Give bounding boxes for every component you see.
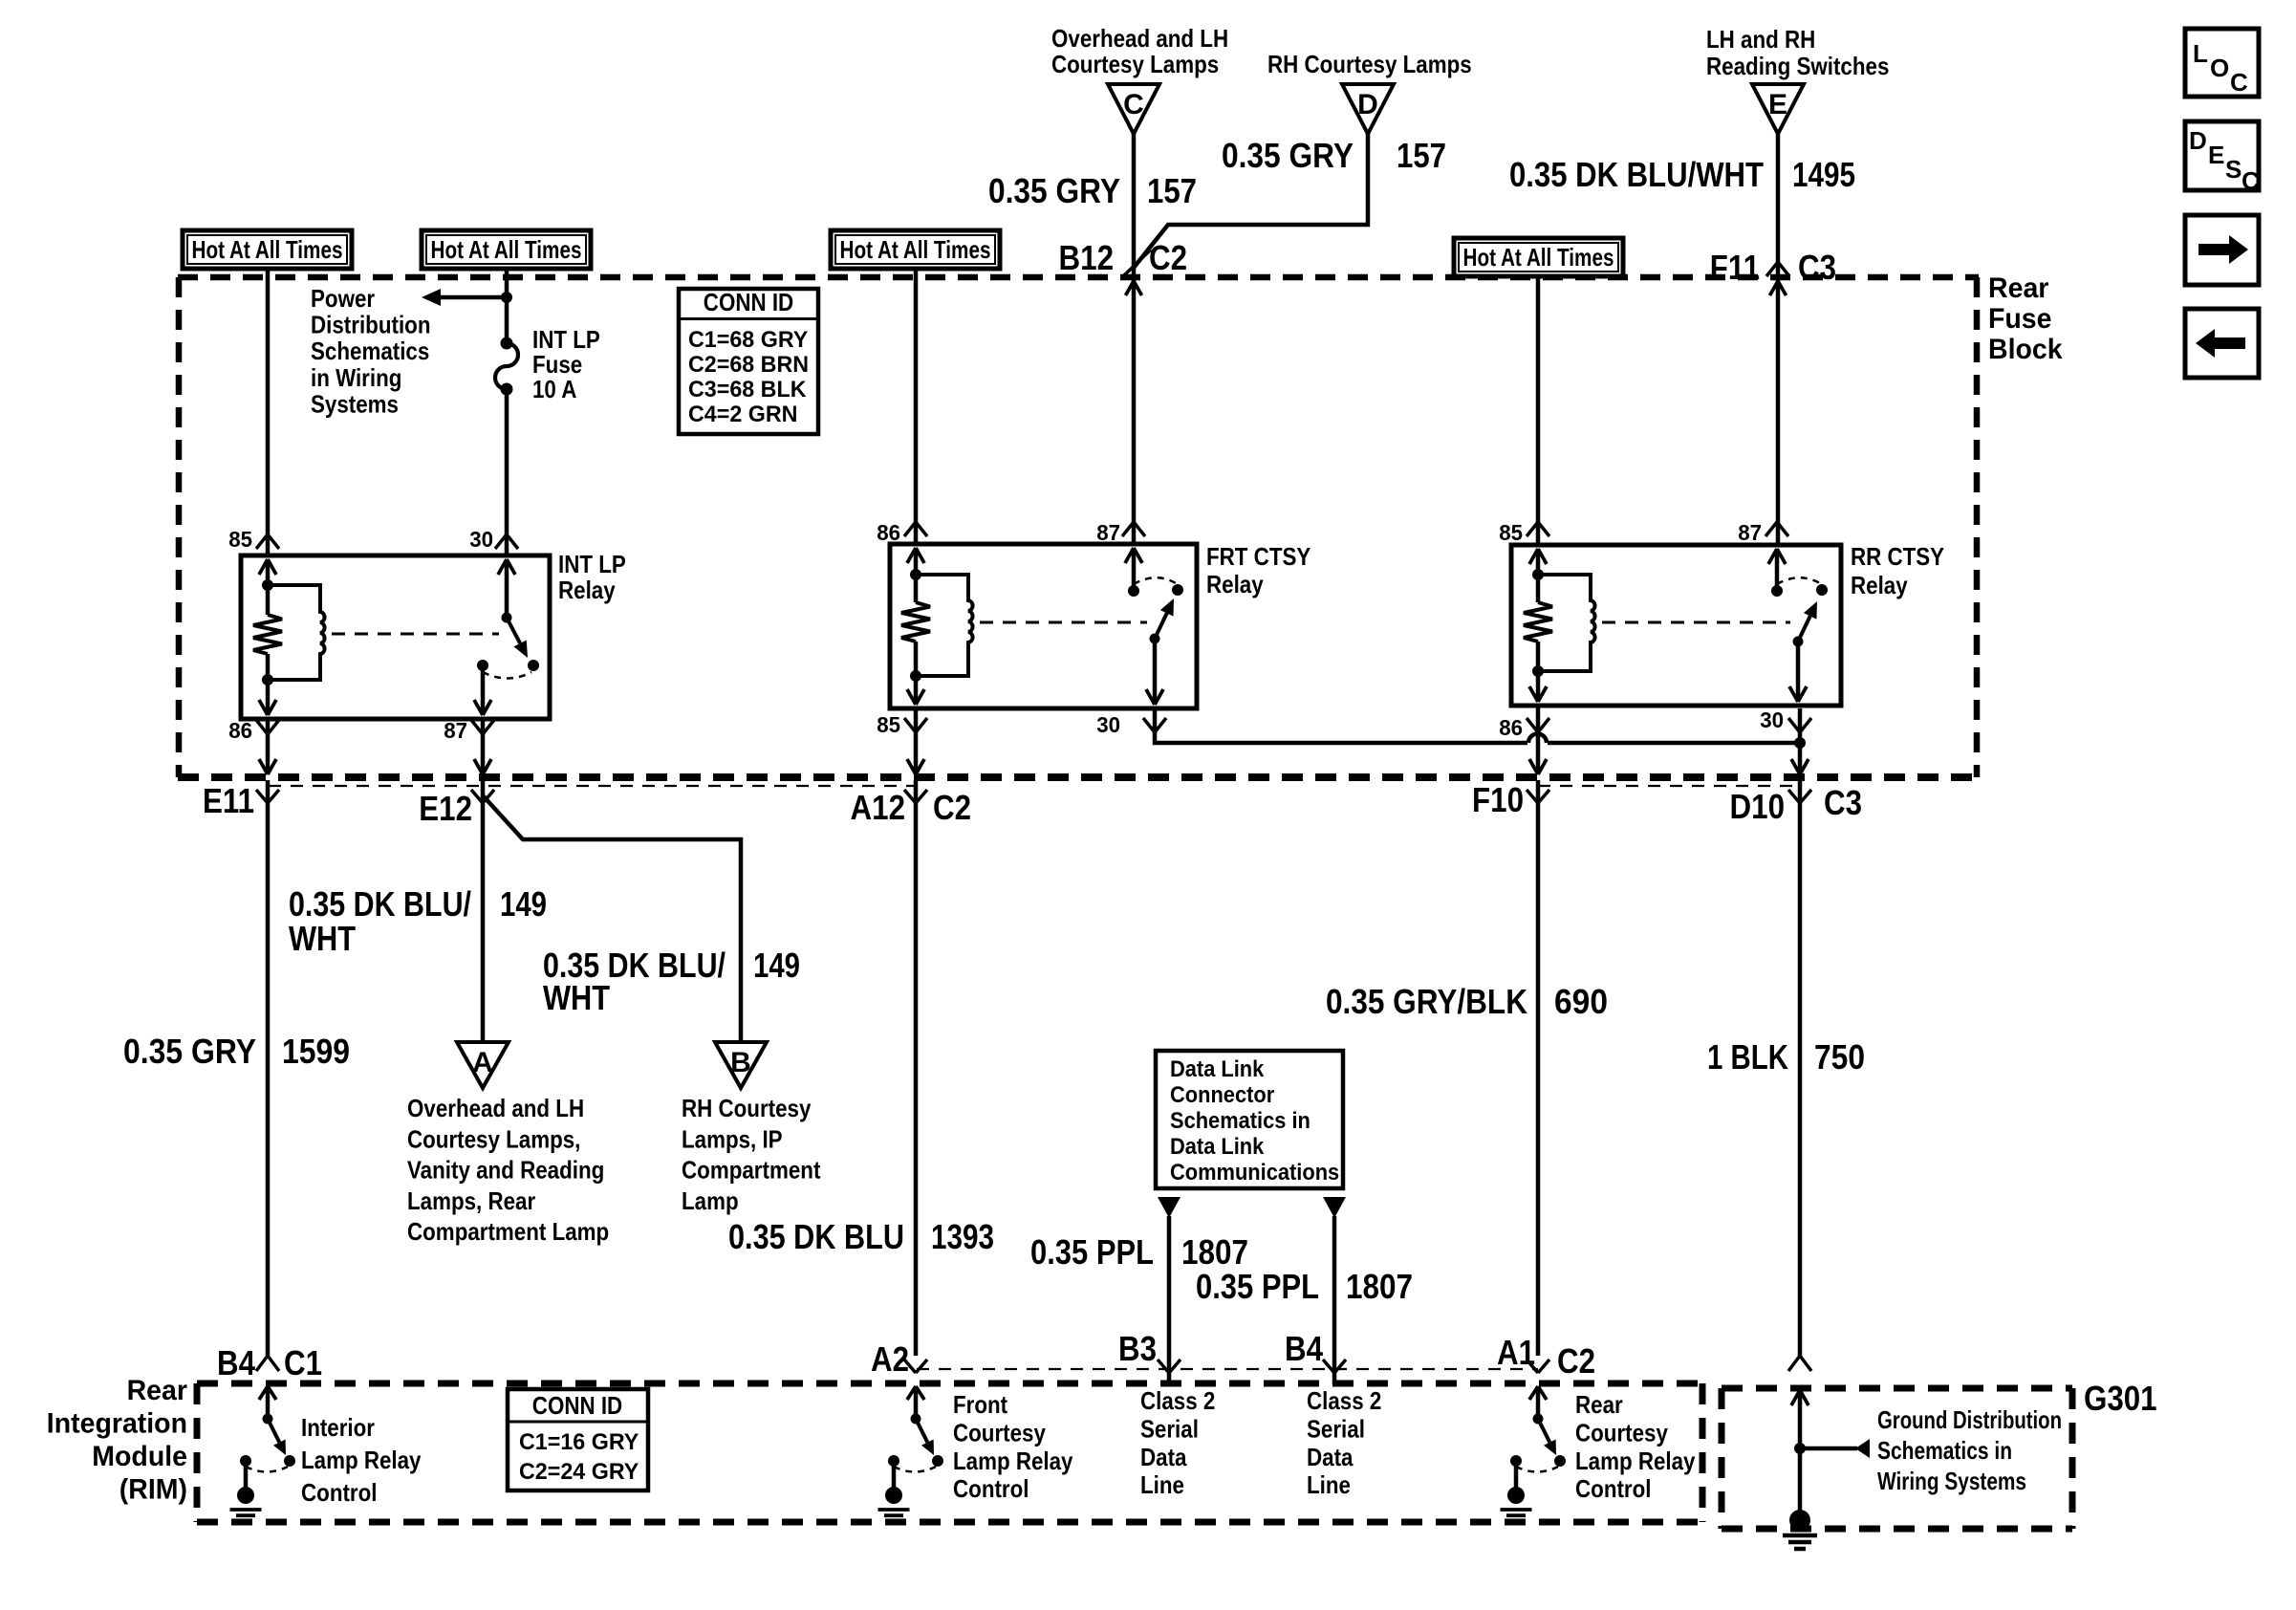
relay1 switch contact dot — [528, 660, 539, 671]
pin 86 chevron relay1 — [256, 720, 268, 734]
Data Link Connector reference box — [1156, 1051, 1343, 1188]
relay2 switch dashed arc — [1134, 577, 1176, 584]
wire relay3 pin86 to F10 — [1536, 706, 1541, 774]
svg-text:E11: E11 — [203, 781, 254, 820]
connector triangle B — [715, 1042, 767, 1088]
Rear Fuse Block dashed border right — [1974, 277, 1981, 777]
svg-text:B3: B3 — [1118, 1329, 1157, 1368]
svg-text:G301: G301 — [2084, 1379, 2157, 1418]
ground junction dot — [1794, 1443, 1806, 1454]
CONN ID table (fuse block) — [679, 289, 818, 434]
svg-text:Line: Line — [1140, 1470, 1184, 1499]
relay U1 INT LP Relay box — [241, 555, 550, 719]
relay1 coil — [268, 585, 325, 680]
pin 85 chevron relay3 — [1527, 522, 1538, 536]
svg-text:0.35 GRY/BLK: 0.35 GRY/BLK — [1326, 982, 1527, 1021]
icon box DESC — [2185, 121, 2259, 190]
svg-text:Serial: Serial — [1140, 1414, 1199, 1443]
svg-text:Control: Control — [301, 1478, 378, 1507]
svg-text:WHT: WHT — [543, 978, 610, 1017]
power label box Hot At All Times (FRT CTSY) — [831, 230, 1000, 269]
svg-text:0.35 PPL: 0.35 PPL — [1196, 1267, 1319, 1306]
svg-text:(RIM): (RIM) — [119, 1474, 187, 1506]
relay2 switch contact dot — [1172, 584, 1183, 596]
svg-text:85: 85 — [1499, 520, 1523, 545]
pin 85 chevron relay2 — [904, 718, 916, 732]
G301 dashed border — [1722, 1385, 2072, 1392]
svg-text:0.35 DK BLU: 0.35 DK BLU — [728, 1217, 904, 1256]
wire fuse to relay pin 30 — [505, 389, 509, 555]
pin 30 chevron relay3 — [1788, 718, 1800, 732]
relay2 switch pivot dot — [1150, 634, 1160, 644]
svg-text:690: 690 — [1554, 982, 1608, 1021]
power label box Hot At All Times (RR CTSY) — [1454, 238, 1623, 276]
svg-text:C3=68 BLK: C3=68 BLK — [688, 377, 807, 402]
svg-text:C: C — [2242, 166, 2260, 195]
relay3 coil-switch dashed link — [1602, 621, 1790, 624]
arrow up into fuse block at F11 — [1770, 281, 1779, 295]
pin 85 arrow inside relay1 — [259, 559, 268, 575]
reference arrow to Ground Distribution Schematics — [1800, 1447, 1857, 1451]
svg-text:C: C — [2230, 68, 2248, 97]
Rear Fuse Block dashed border top — [178, 274, 1979, 281]
in-line connector thin dashed line F10-D10 — [1538, 785, 1800, 787]
connector triangle A — [457, 1042, 509, 1088]
icon box arrow left — [2185, 309, 2259, 378]
svg-text:Wiring Systems: Wiring Systems — [1877, 1467, 2026, 1495]
svg-text:0.35 GRY: 0.35 GRY — [1222, 136, 1354, 175]
relay1 switch pivot dot — [502, 613, 512, 623]
svg-text:B4: B4 — [217, 1343, 255, 1382]
svg-text:Front: Front — [953, 1390, 1007, 1419]
wire Hot At All Times to relay2 pin 86 — [914, 269, 919, 544]
svg-text:Lamp: Lamp — [682, 1186, 739, 1215]
wire relay2 pin85 to A12 — [914, 708, 919, 774]
connector triangle C — [1108, 84, 1159, 134]
wire E12 down to triangle A — [481, 780, 486, 1042]
junction dot at fuse tap — [501, 292, 512, 303]
svg-text:C2: C2 — [1557, 1341, 1595, 1381]
svg-text:85: 85 — [877, 712, 900, 737]
relay3 switch blade — [1798, 616, 1810, 642]
svg-text:Lamp Relay: Lamp Relay — [1575, 1447, 1696, 1475]
wire B12 to relay2 pin 87 — [1132, 542, 1137, 547]
svg-text:Courtesy Lamps: Courtesy Lamps — [1051, 50, 1219, 78]
svg-text:Schematics in: Schematics in — [1877, 1436, 2012, 1465]
relay3 resistor — [1536, 575, 1541, 602]
svg-text:E12: E12 — [419, 789, 472, 828]
pin 87 chevron relay3 — [1765, 522, 1777, 536]
svg-text:Lamp Relay: Lamp Relay — [301, 1446, 422, 1474]
svg-text:1807: 1807 — [1181, 1232, 1248, 1272]
svg-text:Class 2: Class 2 — [1307, 1386, 1381, 1415]
svg-text:Class 2: Class 2 — [1140, 1386, 1215, 1415]
svg-text:Data Link: Data Link — [1170, 1056, 1265, 1082]
wire E11 down to B4 — [266, 780, 271, 1356]
wire A12 down to A2 — [914, 780, 919, 1356]
svg-text:F11: F11 — [1710, 248, 1760, 287]
svg-text:B4: B4 — [1285, 1329, 1323, 1368]
svg-text:Line: Line — [1307, 1470, 1351, 1499]
pin 30 chevron relay2 — [1143, 718, 1155, 732]
wire from triangle E down to F11 — [1776, 134, 1781, 545]
CONN ID table (RIM) — [508, 1389, 648, 1490]
svg-text:Control: Control — [953, 1474, 1029, 1503]
relay2 coil — [916, 575, 973, 676]
reference arrow to Power Distribution Schematics — [439, 295, 507, 300]
svg-text:Rear: Rear — [1988, 272, 2049, 304]
svg-text:C2: C2 — [933, 788, 971, 827]
relay2 pin 87 arrow inside — [1125, 548, 1134, 563]
svg-text:Control: Control — [1575, 1474, 1652, 1503]
pin 87 chevron relay1 — [471, 720, 483, 734]
svg-text:Integration: Integration — [47, 1408, 187, 1440]
svg-text:Ground Distribution: Ground Distribution — [1877, 1405, 2062, 1434]
pin 86 chevron relay3 — [1527, 718, 1538, 732]
relay U3 RR CTSY Relay box — [1511, 545, 1841, 706]
relay3 coil — [1538, 575, 1595, 671]
wire relay2 pin30 to relay3 pin30 with hop over relay3 pin86 wire — [1155, 708, 1527, 743]
svg-text:Block: Block — [1988, 334, 2063, 365]
wire relay3 pin30 to D10 — [1798, 708, 1803, 774]
power label box Hot At All Times (left) — [183, 230, 352, 269]
svg-text:A1: A1 — [1497, 1333, 1535, 1372]
svg-text:A: A — [472, 1047, 493, 1078]
relay1 pin 87 stub dot — [477, 660, 488, 671]
svg-text:Overhead and LH: Overhead and LH — [1051, 24, 1228, 53]
relay2 pin 85 arrow inside — [914, 676, 919, 705]
svg-text:WHT: WHT — [289, 919, 356, 958]
svg-text:0.35 GRY: 0.35 GRY — [988, 171, 1120, 210]
relay1 coil top junction dot — [262, 579, 273, 591]
svg-text:Relay: Relay — [1851, 571, 1908, 599]
RIM rear courtesy lamp relay control switch — [1529, 1386, 1538, 1400]
svg-text:INT LP: INT LP — [558, 550, 626, 578]
svg-text:Schematics in: Schematics in — [1170, 1108, 1310, 1134]
svg-text:C3: C3 — [1798, 248, 1836, 287]
svg-text:Vanity and Reading: Vanity and Reading — [407, 1156, 604, 1185]
svg-text:Courtesy: Courtesy — [953, 1418, 1046, 1447]
svg-text:30: 30 — [469, 527, 493, 552]
Rear Fuse Block dashed border left — [176, 277, 183, 777]
svg-text:A12: A12 — [851, 788, 906, 827]
svg-text:Lamp Relay: Lamp Relay — [953, 1447, 1073, 1475]
svg-text:C3: C3 — [1824, 783, 1862, 822]
svg-text:E: E — [1768, 89, 1787, 120]
svg-text:157: 157 — [1147, 171, 1197, 210]
svg-text:C: C — [1123, 89, 1144, 120]
svg-text:CONN ID: CONN ID — [532, 1391, 622, 1420]
svg-text:Lamps, Rear: Lamps, Rear — [407, 1186, 535, 1215]
svg-text:RH Courtesy: RH Courtesy — [682, 1094, 812, 1122]
relay3 pin 87 dot — [1771, 585, 1783, 597]
relay3 pin 86 arrow inside — [1536, 671, 1541, 702]
svg-text:Data: Data — [1140, 1443, 1187, 1471]
pin 85 chevron relay1 — [256, 534, 268, 549]
svg-text:Reading Switches: Reading Switches — [1706, 52, 1889, 80]
svg-text:F10: F10 — [1472, 780, 1524, 819]
wire from triangle C down to B12 — [1132, 134, 1137, 544]
pin 86 arrow inside relay2 — [907, 548, 916, 563]
wire from triangle D down and left to B12 — [1134, 134, 1368, 268]
relay1 resistor — [266, 585, 271, 615]
relay3 switch pivot dot — [1793, 637, 1804, 647]
svg-text:1807: 1807 — [1346, 1267, 1413, 1306]
wire Hot At All Times (left) to relay pin 85 — [266, 269, 271, 555]
relay U2 FRT CTSY Relay box — [890, 544, 1197, 708]
svg-text:Rear: Rear — [127, 1375, 188, 1406]
svg-text:L: L — [2193, 39, 2208, 68]
wire B4 serial data — [1332, 1216, 1337, 1384]
pin 86 chevron relay2 — [904, 522, 916, 536]
svg-text:86: 86 — [1499, 715, 1523, 740]
svg-text:10 A: 10 A — [532, 375, 577, 403]
relay3 coil bottom junction dot — [1532, 665, 1544, 677]
svg-text:Courtesy: Courtesy — [1575, 1418, 1668, 1447]
svg-text:Hot At All Times: Hot At All Times — [192, 235, 343, 264]
svg-text:Communications: Communications — [1170, 1160, 1339, 1186]
svg-text:750: 750 — [1814, 1037, 1865, 1077]
svg-text:Relay: Relay — [558, 576, 616, 604]
relay1 coil-switch dashed link — [332, 633, 499, 636]
svg-text:LH and RH: LH and RH — [1706, 25, 1815, 54]
svg-text:157: 157 — [1397, 136, 1446, 175]
node G301 chevron — [1788, 1356, 1800, 1371]
svg-text:S: S — [2225, 155, 2242, 184]
relay1 pin 87 arrow inside — [481, 665, 486, 715]
relay2 coil-switch dashed link — [980, 621, 1147, 624]
junction dot at relay3 pin30 wire — [1794, 737, 1806, 749]
svg-text:1393: 1393 — [931, 1217, 994, 1256]
relay1 pin 86 arrow inside — [266, 680, 271, 715]
Rear Integration Module dashed border — [197, 1381, 1702, 1387]
wire B3 serial data — [1167, 1216, 1172, 1384]
svg-text:Relay: Relay — [1206, 570, 1264, 598]
svg-text:Data: Data — [1307, 1443, 1354, 1471]
icon box arrow right — [2185, 215, 2259, 285]
relay2 pin 87 dot — [1128, 585, 1139, 597]
relay2 coil bottom junction dot — [910, 670, 921, 682]
svg-text:Distribution: Distribution — [311, 311, 431, 339]
relay1 switch dashed arc — [483, 672, 531, 679]
Rear Fuse Block dashed border bottom — [178, 773, 1979, 781]
svg-text:C1=16 GRY: C1=16 GRY — [519, 1429, 639, 1455]
reference arrow B4 (to data link box) — [1323, 1197, 1346, 1218]
svg-text:Hot At All Times: Hot At All Times — [840, 235, 991, 264]
svg-text:Rear: Rear — [1575, 1390, 1623, 1419]
svg-text:in Wiring: in Wiring — [311, 363, 401, 392]
connector chevron at F11 — [1766, 262, 1778, 276]
svg-text:0.35 DK BLU/: 0.35 DK BLU/ — [289, 884, 471, 924]
relay3 switch dashed arc — [1777, 577, 1820, 584]
svg-text:D: D — [1357, 89, 1378, 120]
svg-text:Connector: Connector — [1170, 1082, 1274, 1108]
wire F10 down to A1 — [1536, 780, 1541, 1356]
svg-text:87: 87 — [444, 718, 467, 743]
svg-text:CONN ID: CONN ID — [704, 288, 793, 316]
pin 30 chevron relay1 — [495, 534, 507, 549]
svg-text:D: D — [2189, 126, 2207, 155]
wire Hot At All Times to relay3 pin 85 — [1536, 276, 1541, 545]
connector triangle D — [1342, 84, 1394, 134]
svg-text:RH Courtesy Lamps: RH Courtesy Lamps — [1267, 50, 1472, 78]
wire F11 to relay3 pin 87 — [1775, 543, 1780, 548]
svg-text:B12: B12 — [1059, 238, 1115, 277]
relay3 coil top junction dot — [1532, 569, 1544, 580]
svg-text:Hot At All Times: Hot At All Times — [431, 235, 582, 264]
relay2 resistor — [914, 575, 919, 602]
svg-text:Module: Module — [92, 1441, 187, 1472]
svg-text:30: 30 — [1096, 712, 1120, 737]
svg-text:87: 87 — [1096, 520, 1120, 545]
svg-text:Lamps, IP: Lamps, IP — [682, 1124, 783, 1153]
svg-text:C4=2 GRN: C4=2 GRN — [688, 402, 798, 427]
svg-text:C2=24 GRY: C2=24 GRY — [519, 1459, 639, 1485]
reference arrow B3 (to data link box) — [1158, 1197, 1180, 1218]
pin 85 arrow inside relay3 — [1529, 549, 1538, 564]
svg-text:86: 86 — [877, 520, 900, 545]
RIM front courtesy lamp relay control switch — [907, 1386, 916, 1400]
svg-text:0.35 DK BLU/WHT: 0.35 DK BLU/WHT — [1509, 155, 1764, 194]
svg-text:Schematics: Schematics — [311, 337, 429, 365]
pin 87 chevron relay2 — [1122, 522, 1134, 536]
ground wire into G301 — [1791, 1390, 1800, 1405]
svg-text:Overhead and LH: Overhead and LH — [407, 1094, 584, 1122]
wire relay1 pin87 to E12 — [481, 719, 486, 774]
svg-text:Data Link: Data Link — [1170, 1134, 1265, 1160]
relay3 switch contact dot — [1816, 584, 1828, 596]
relay3 pin 87 arrow inside — [1768, 549, 1777, 564]
svg-text:Compartment: Compartment — [682, 1156, 821, 1185]
fuse INT LP 10A symbol — [501, 337, 513, 350]
svg-text:1495: 1495 — [1792, 155, 1855, 194]
svg-text:0.35 PPL: 0.35 PPL — [1030, 1232, 1154, 1272]
svg-text:O: O — [2210, 54, 2229, 82]
svg-text:A2: A2 — [871, 1339, 909, 1379]
relay1 pin 30 arrow inside — [498, 559, 507, 575]
svg-text:C1: C1 — [284, 1343, 322, 1382]
svg-text:C1=68 GRY: C1=68 GRY — [688, 327, 808, 353]
ground G301 symbol — [1789, 1510, 1810, 1531]
icon box LOC — [2185, 29, 2259, 97]
svg-text:0.35 GRY: 0.35 GRY — [123, 1032, 256, 1071]
relay3 pin 30 arrow inside — [1796, 642, 1801, 702]
wire relay1 pin86 to E11 — [266, 719, 271, 774]
wire Hot At All Times (fuse col) to fuse — [505, 269, 509, 343]
wire D10 down to G301 — [1798, 780, 1803, 1356]
svg-text:1599: 1599 — [282, 1032, 350, 1071]
in-line connector thin dashed line E11-A12 — [269, 785, 917, 787]
svg-text:149: 149 — [500, 884, 547, 924]
svg-text:E: E — [2208, 141, 2224, 169]
svg-text:Serial: Serial — [1307, 1414, 1365, 1443]
svg-text:D10: D10 — [1730, 787, 1786, 826]
wire branch E12 to triangle B — [483, 795, 741, 1042]
svg-text:Hot At All Times: Hot At All Times — [1463, 243, 1614, 272]
svg-text:Systems: Systems — [311, 389, 399, 418]
RIM interior lamp relay control switch — [259, 1386, 268, 1400]
svg-text:FRT CTSY: FRT CTSY — [1206, 542, 1310, 571]
svg-text:1 BLK: 1 BLK — [1707, 1037, 1788, 1077]
relay2 coil top junction dot — [910, 569, 921, 580]
relay2 pin 30 arrow inside — [1153, 639, 1158, 705]
power label box Hot At All Times (fuse) — [422, 230, 591, 269]
relay1 switch blade — [507, 618, 520, 643]
svg-text:Power: Power — [311, 284, 375, 313]
svg-text:85: 85 — [228, 527, 252, 552]
svg-text:B: B — [730, 1047, 751, 1078]
svg-text:Fuse: Fuse — [1988, 303, 2052, 335]
in-line connector mark at B12/C2 — [1123, 250, 1151, 276]
svg-text:Compartment Lamp: Compartment Lamp — [407, 1217, 609, 1246]
svg-text:Courtesy Lamps,: Courtesy Lamps, — [407, 1124, 580, 1153]
svg-text:C2: C2 — [1149, 238, 1187, 277]
svg-text:149: 149 — [753, 946, 800, 985]
svg-text:30: 30 — [1760, 707, 1784, 732]
svg-text:Interior: Interior — [301, 1413, 375, 1442]
svg-text:RR CTSY: RR CTSY — [1851, 542, 1944, 571]
in-line connector thin dashed line A2-A1 — [917, 1368, 1538, 1370]
relay2 switch blade — [1155, 613, 1167, 639]
svg-text:86: 86 — [228, 718, 252, 743]
svg-text:87: 87 — [1738, 520, 1762, 545]
svg-text:C2=68 BRN: C2=68 BRN — [688, 352, 809, 378]
relay1 coil bottom junction dot — [262, 674, 273, 685]
arrow up into fuse block at B12 — [1126, 281, 1135, 295]
connector triangle E — [1752, 84, 1804, 134]
